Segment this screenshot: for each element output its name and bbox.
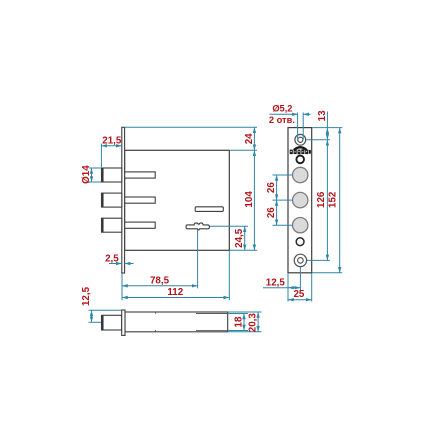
faceplate front view (288, 128, 312, 273)
bolt shaft bar 3 (125, 222, 156, 228)
bottom screw hole (294, 254, 306, 266)
svg-text:26: 26 (266, 182, 277, 193)
stop plate (195, 207, 223, 212)
svg-text:13: 13 (317, 110, 328, 121)
svg-text:26: 26 (266, 207, 277, 218)
svg-text:78,5: 78,5 (150, 275, 170, 286)
dimension 104 (230, 150, 257, 250)
dimension 25 (288, 273, 312, 301)
bolt 1 (102, 168, 122, 182)
dimension 24,5 (210, 226, 248, 250)
brand logo stamp (294, 147, 307, 150)
svg-text:2,5: 2,5 (105, 253, 119, 264)
dimension 20,3 (228, 312, 262, 332)
dimension 18 (228, 314, 248, 331)
svg-text:12,5: 12,5 (266, 278, 286, 289)
dimension 2,5 (109, 263, 134, 265)
side view body (125, 312, 228, 332)
svg-text:Ø5,2: Ø5,2 (272, 104, 292, 114)
bolt 2 (102, 193, 122, 207)
dimension 12,5 front view (263, 267, 300, 302)
svg-text:126: 126 (316, 191, 327, 208)
side view bolt head (102, 315, 122, 330)
svg-text:112: 112 (167, 287, 183, 298)
logo ring (296, 156, 304, 164)
bolt shaft bar 1 (125, 172, 156, 178)
dimension Ø5,2 2 holes leader (270, 113, 311, 141)
small hole (296, 238, 304, 246)
faceplate strip plan view (122, 127, 125, 273)
svg-text:25: 25 (293, 289, 304, 300)
svg-text:24,5: 24,5 (234, 228, 245, 248)
dimension 13 (307, 112, 343, 140)
key cam (186, 223, 209, 230)
svg-text:24: 24 (244, 133, 255, 144)
bolt hole 1 (293, 167, 308, 182)
side view faceplate flange (122, 310, 125, 335)
lock body plan view (125, 150, 230, 250)
bolt shaft bar 2 (125, 197, 156, 203)
dimension 26 lower (273, 200, 293, 225)
dimension 12,5 side view (89, 310, 122, 322)
dimension 26 upper (273, 175, 293, 200)
dimension 112 (122, 251, 229, 300)
svg-text:Ø14: Ø14 (81, 165, 92, 184)
dimension 152 (312, 128, 342, 273)
svg-text:20,3: 20,3 (248, 313, 259, 333)
svg-text:2 отв.: 2 отв. (269, 115, 295, 125)
bolt 3 (102, 218, 122, 232)
svg-text:18: 18 (234, 316, 245, 327)
bolt hole 3 (293, 218, 308, 233)
svg-text:21,5: 21,5 (102, 136, 122, 147)
svg-text:152: 152 (327, 191, 338, 208)
svg-text:104: 104 (244, 191, 255, 208)
dimension 21,5 (101, 144, 121, 168)
top screw hole (295, 134, 306, 145)
dimension 126 (307, 140, 330, 261)
dimension 78,5 (122, 230, 198, 300)
dimension 24 (125, 127, 257, 150)
dimension Ø14 (89, 168, 101, 182)
svg-text:12,5: 12,5 (81, 286, 92, 306)
bolt hole 2 (293, 192, 308, 207)
